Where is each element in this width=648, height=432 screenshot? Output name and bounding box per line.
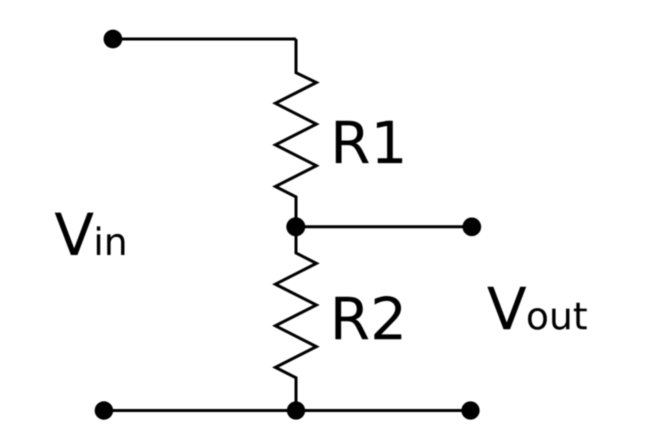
node: Vin top terminal — [104, 30, 123, 49]
label Vin — [55, 213, 125, 255]
resistor R1 — [275, 39, 316, 227]
node: bottom-right terminal — [461, 401, 479, 419]
node: junction between R1 and R2 — [286, 217, 305, 236]
node: bottom junction under R2 — [287, 401, 305, 419]
node: Vout terminal — [462, 217, 481, 236]
label R1 — [336, 121, 402, 163]
label Vout — [487, 287, 586, 330]
wire: bottom rail — [104, 409, 471, 412]
label R2 — [335, 296, 401, 339]
wire: middle tap from node to Vout terminal — [296, 225, 472, 228]
resistor R2 — [275, 227, 316, 411]
wire: top from Vin terminal to R1 — [113, 38, 296, 41]
node: bottom-left terminal — [95, 401, 114, 420]
